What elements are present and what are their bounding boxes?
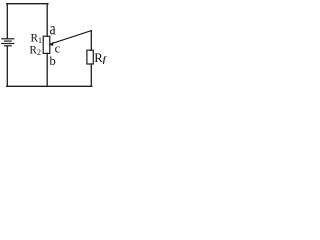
rheostat body R1/R2 [43,36,50,53]
battery B1 short plate bottom [5,45,12,47]
wire right branch lower [90,64,92,86]
resistor Rf body [87,50,93,64]
wire wiper diagonal c to right branch [50,31,92,45]
node label a [50,20,56,39]
wiper arrowhead at c [49,42,54,46]
wire right branch upper [90,31,92,51]
wire rheostat top lead [46,4,48,37]
svg-text:b: b [50,54,56,68]
battery B1 long plate top [2,38,14,40]
wire bottom [7,85,92,87]
svg-text:a: a [50,20,56,39]
wire left upper [6,4,8,39]
battery B1 long plate second [2,43,14,45]
wire rheostat bottom lead [46,53,48,86]
wire top [7,3,48,5]
battery B1 short plate [5,40,12,42]
wire left lower [6,46,8,86]
